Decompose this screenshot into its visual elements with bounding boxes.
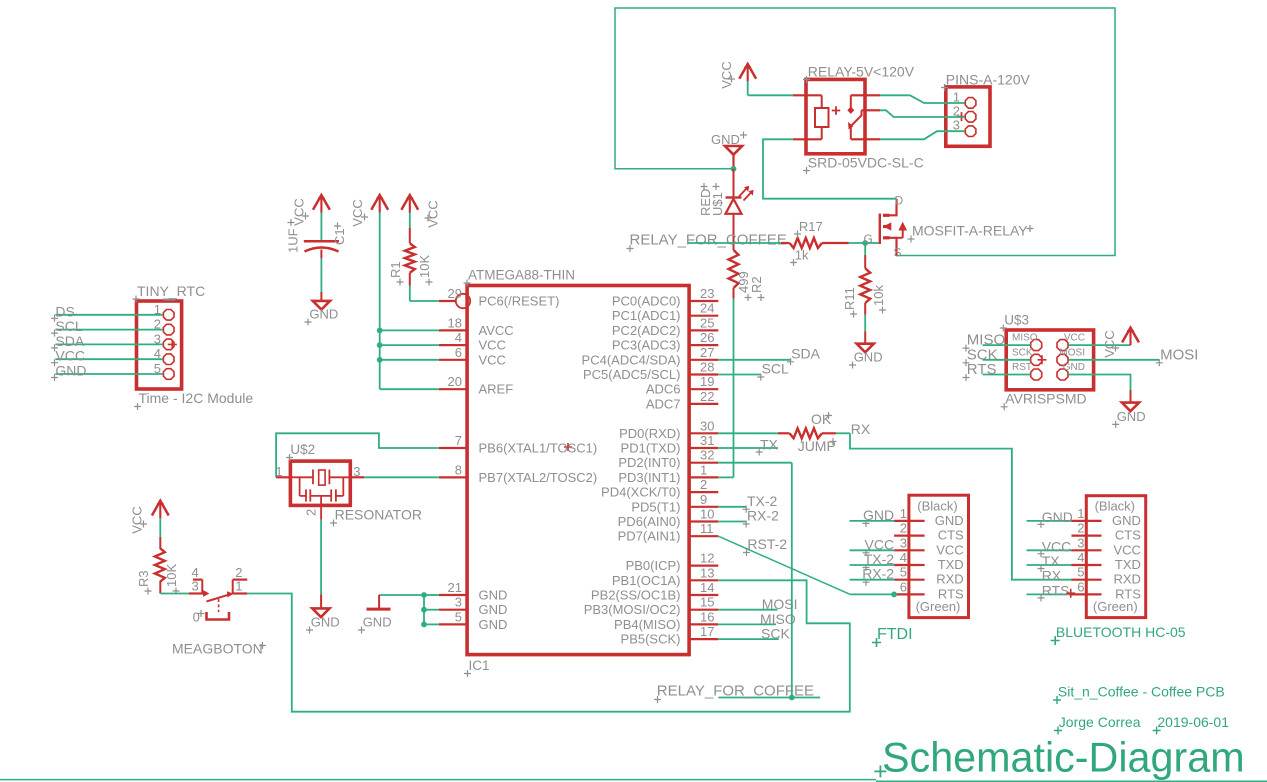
svg-text:PD0(RXD): PD0(RXD) <box>619 426 680 441</box>
svg-text:VCC: VCC <box>291 198 306 225</box>
svg-text:TX-2: TX-2 <box>864 551 895 567</box>
svg-text:1: 1 <box>900 506 907 521</box>
svg-text:PC5(ADC5/SCL): PC5(ADC5/SCL) <box>583 367 681 382</box>
svg-text:RELAY_FOR_COFFEE: RELAY_FOR_COFFEE <box>630 232 787 249</box>
svg-text:ADC6: ADC6 <box>646 382 681 397</box>
svg-text:9: 9 <box>700 492 707 507</box>
svg-text:PB4(MISO): PB4(MISO) <box>614 617 680 632</box>
svg-text:MOSFIT-A-RELAY: MOSFIT-A-RELAY <box>912 223 1028 239</box>
svg-text:GND: GND <box>309 307 338 322</box>
svg-text:1UF: 1UF <box>286 228 301 253</box>
svg-text:13: 13 <box>700 565 714 580</box>
svg-text:R17: R17 <box>799 219 823 234</box>
svg-text:23: 23 <box>700 286 714 301</box>
svg-text:TX: TX <box>760 437 779 453</box>
svg-text:GND: GND <box>1042 509 1073 525</box>
svg-text:3: 3 <box>191 579 198 594</box>
svg-text:18: 18 <box>448 315 462 330</box>
svg-text:1: 1 <box>700 462 707 477</box>
svg-text:VCC: VCC <box>865 536 895 552</box>
svg-text:MOSI: MOSI <box>1160 346 1198 363</box>
svg-text:GND: GND <box>1063 362 1085 373</box>
svg-text:RX-2: RX-2 <box>862 566 894 582</box>
svg-text:VCC: VCC <box>479 338 506 353</box>
svg-text:MOSI: MOSI <box>1059 347 1085 358</box>
svg-text:(Green): (Green) <box>916 599 961 614</box>
svg-text:RTS: RTS <box>967 361 997 378</box>
svg-text:Jorge Correa: Jorge Correa <box>1059 714 1141 730</box>
svg-text:GND: GND <box>1112 513 1141 528</box>
svg-text:2: 2 <box>700 477 707 492</box>
svg-text:RST: RST <box>1012 362 1032 373</box>
svg-text:RX: RX <box>1042 568 1062 584</box>
svg-text:PC4(ADC4/SDA): PC4(ADC4/SDA) <box>582 352 681 367</box>
svg-text:1: 1 <box>1077 506 1084 521</box>
svg-text:21: 21 <box>448 580 462 595</box>
svg-text:GND: GND <box>1117 409 1146 424</box>
svg-text:5: 5 <box>455 609 462 624</box>
svg-text:RESONATOR: RESONATOR <box>335 507 422 523</box>
svg-text:U$2: U$2 <box>290 442 315 457</box>
svg-text:PC3(ADC3): PC3(ADC3) <box>612 338 681 353</box>
svg-text:6: 6 <box>1077 579 1084 594</box>
svg-text:MEAGBOTON: MEAGBOTON <box>172 641 263 657</box>
svg-text:GND: GND <box>863 507 894 523</box>
svg-text:S: S <box>894 246 902 260</box>
svg-text:16: 16 <box>700 609 714 624</box>
svg-text:MISO: MISO <box>760 611 796 627</box>
svg-text:R3: R3 <box>136 570 151 587</box>
svg-text:3: 3 <box>900 535 907 550</box>
svg-text:10: 10 <box>700 507 714 522</box>
svg-text:10K: 10K <box>164 564 179 587</box>
svg-text:10k: 10k <box>871 285 886 306</box>
svg-text:29: 29 <box>448 286 462 301</box>
svg-text:SCL: SCL <box>762 361 789 377</box>
svg-text:DS: DS <box>55 303 74 319</box>
svg-text:AVCC: AVCC <box>479 323 514 338</box>
svg-text:RTS: RTS <box>1042 582 1070 598</box>
svg-text:PD3(INT1): PD3(INT1) <box>618 470 680 485</box>
svg-text:GND: GND <box>363 615 392 630</box>
svg-text:PC6(/RESET): PC6(/RESET) <box>479 294 560 309</box>
svg-text:25: 25 <box>700 315 714 330</box>
svg-text:SDA: SDA <box>55 333 84 349</box>
svg-text:SCK: SCK <box>761 626 790 642</box>
svg-text:IC1: IC1 <box>469 658 490 673</box>
svg-text:1: 1 <box>235 579 242 594</box>
svg-text:R1: R1 <box>388 261 403 278</box>
svg-text:1: 1 <box>275 464 282 479</box>
svg-text:PB2(SS/OC1B): PB2(SS/OC1B) <box>591 588 681 603</box>
svg-text:RST-2: RST-2 <box>747 536 787 552</box>
svg-text:(Black): (Black) <box>1095 499 1135 514</box>
svg-text:PD6(AIN0): PD6(AIN0) <box>618 514 681 529</box>
svg-text:TX: TX <box>1042 553 1061 569</box>
svg-text:VCC: VCC <box>350 199 365 226</box>
svg-text:3: 3 <box>455 595 462 610</box>
svg-text:PC0(ADC0): PC0(ADC0) <box>612 294 681 309</box>
svg-text:TXD: TXD <box>938 557 964 572</box>
svg-text:2: 2 <box>1077 521 1084 536</box>
svg-text:17: 17 <box>700 624 714 639</box>
svg-text:15: 15 <box>700 595 714 610</box>
svg-text:RX-2: RX-2 <box>747 508 779 524</box>
svg-text:11: 11 <box>700 521 714 536</box>
svg-text:30: 30 <box>700 418 714 433</box>
svg-text:(Black): (Black) <box>917 499 957 514</box>
svg-text:2019-06-01: 2019-06-01 <box>1157 714 1229 730</box>
svg-text:SDA: SDA <box>791 345 820 361</box>
svg-text:8: 8 <box>455 462 462 477</box>
svg-text:JUMP: JUMP <box>798 438 836 454</box>
svg-text:26: 26 <box>700 330 714 345</box>
svg-text:4: 4 <box>1077 550 1084 565</box>
svg-text:VCC: VCC <box>130 506 145 533</box>
svg-text:PD2(INT0): PD2(INT0) <box>618 455 680 470</box>
svg-text:GND: GND <box>854 350 883 365</box>
svg-text:1k: 1k <box>795 248 809 263</box>
svg-text:AREF: AREF <box>479 382 514 397</box>
svg-text:2: 2 <box>304 509 319 516</box>
svg-text:VCC: VCC <box>1042 538 1072 554</box>
svg-text:VCC: VCC <box>55 348 85 364</box>
svg-text:3: 3 <box>1077 535 1084 550</box>
svg-text:24: 24 <box>700 301 714 316</box>
svg-text:14: 14 <box>700 580 714 595</box>
svg-text:R2: R2 <box>749 276 764 293</box>
svg-text:5: 5 <box>900 565 907 580</box>
svg-text:MISO: MISO <box>1012 333 1038 344</box>
svg-text:PB5(SCK): PB5(SCK) <box>621 632 681 647</box>
svg-text:VCC: VCC <box>936 542 963 557</box>
svg-text:VCC: VCC <box>1102 330 1117 357</box>
svg-text:ATMEGA88-THIN: ATMEGA88-THIN <box>468 268 575 283</box>
svg-text:CTS: CTS <box>1115 528 1141 543</box>
svg-text:TX-2: TX-2 <box>747 493 778 509</box>
svg-text:RXD: RXD <box>936 572 963 587</box>
svg-text:D: D <box>895 194 904 208</box>
svg-text:PINS-A-120V: PINS-A-120V <box>946 72 1031 88</box>
svg-text:ADC7: ADC7 <box>646 396 681 411</box>
svg-text:VCC: VCC <box>1113 542 1140 557</box>
svg-text:RX: RX <box>851 421 871 437</box>
svg-text:VCC: VCC <box>1064 333 1085 344</box>
svg-text:PD5(T1): PD5(T1) <box>631 499 680 514</box>
svg-text:4: 4 <box>455 330 462 345</box>
svg-text:Schematic-Diagram: Schematic-Diagram <box>882 735 1245 781</box>
svg-text:PB7(XTAL2/TOSC2): PB7(XTAL2/TOSC2) <box>479 470 598 485</box>
svg-text:GND: GND <box>935 513 964 528</box>
svg-text:22: 22 <box>700 389 714 404</box>
svg-text:PD4(XCK/T0): PD4(XCK/T0) <box>601 485 680 500</box>
svg-text:(Green): (Green) <box>1093 599 1138 614</box>
svg-text:AVRISPSMD: AVRISPSMD <box>1005 390 1086 406</box>
svg-text:VCC: VCC <box>719 61 734 88</box>
svg-text:G: G <box>864 232 873 246</box>
svg-text:SRD-05VDC-SL-C: SRD-05VDC-SL-C <box>808 155 924 171</box>
svg-text:Time - I2C Module: Time - I2C Module <box>139 390 254 406</box>
svg-text:BLUETOOTH HC-05: BLUETOOTH HC-05 <box>1056 624 1186 640</box>
svg-text:U$3: U$3 <box>1004 313 1029 328</box>
svg-text:4: 4 <box>900 550 907 565</box>
svg-text:PB3(MOSI/OC2): PB3(MOSI/OC2) <box>584 602 681 617</box>
svg-text:PD7(AIN1): PD7(AIN1) <box>618 529 681 544</box>
svg-text:RXD: RXD <box>1113 572 1140 587</box>
svg-text:C1: C1 <box>332 228 347 245</box>
svg-text:2: 2 <box>900 521 907 536</box>
svg-text:PB1(OC1A): PB1(OC1A) <box>612 573 681 588</box>
svg-text:CTS: CTS <box>938 528 964 543</box>
svg-text:32: 32 <box>700 448 714 463</box>
svg-text:PB0(ICP): PB0(ICP) <box>626 558 681 573</box>
svg-text:12: 12 <box>700 551 714 566</box>
svg-text:PB6(XTAL1/TOSC1): PB6(XTAL1/TOSC1) <box>479 441 598 456</box>
svg-text:TXD: TXD <box>1115 557 1141 572</box>
svg-text:RELAY-5V<120V: RELAY-5V<120V <box>808 64 915 80</box>
svg-text:6: 6 <box>455 345 462 360</box>
svg-text:20: 20 <box>448 374 462 389</box>
svg-text:GND: GND <box>55 363 86 379</box>
svg-text:28: 28 <box>700 360 714 375</box>
svg-text:R11: R11 <box>842 287 857 310</box>
svg-text:19: 19 <box>700 374 714 389</box>
svg-text:GND: GND <box>479 617 508 632</box>
svg-text:FTDI: FTDI <box>877 626 913 643</box>
svg-text:PC1(ADC1): PC1(ADC1) <box>612 308 681 323</box>
svg-text:GND: GND <box>311 615 340 630</box>
svg-text:10K: 10K <box>417 255 432 278</box>
svg-text:RELAY_FOR_COFFEE: RELAY_FOR_COFFEE <box>657 683 814 700</box>
svg-text:SCL: SCL <box>55 318 82 334</box>
svg-text:27: 27 <box>700 345 714 360</box>
svg-text:PC2(ADC2): PC2(ADC2) <box>612 323 681 338</box>
svg-text:GND: GND <box>479 588 508 603</box>
svg-text:SCK: SCK <box>1012 347 1033 358</box>
svg-text:7: 7 <box>455 433 462 448</box>
svg-text:VCC: VCC <box>479 352 506 367</box>
svg-text:6: 6 <box>900 579 907 594</box>
svg-text:U$1: U$1 <box>710 192 725 216</box>
svg-text:VCC: VCC <box>426 200 441 227</box>
svg-text:31: 31 <box>700 433 714 448</box>
svg-text:5: 5 <box>1077 565 1084 580</box>
svg-text:Sit_n_Coffee - Coffee PCB: Sit_n_Coffee - Coffee PCB <box>1058 684 1225 700</box>
svg-text:0: 0 <box>193 610 200 625</box>
svg-text:PD1(TXD): PD1(TXD) <box>621 441 681 456</box>
svg-text:TINY_RTC: TINY_RTC <box>137 283 205 299</box>
svg-text:GND: GND <box>479 602 508 617</box>
